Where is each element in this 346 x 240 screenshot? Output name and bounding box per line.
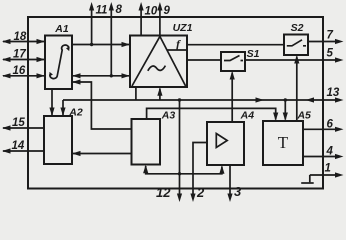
pin 7 wire from S2 bbox=[308, 39, 344, 44]
pin 8 wire bbox=[109, 2, 114, 76]
svg-text:9: 9 bbox=[164, 5, 171, 17]
pin 9 wire to UZ1 bbox=[157, 2, 162, 36]
svg-text:A3: A3 bbox=[161, 110, 176, 122]
svg-text:UZ1: UZ1 bbox=[173, 22, 193, 34]
IC outer border bbox=[28, 17, 323, 189]
UZ1 f-section divider bbox=[167, 49, 187, 51]
svg-text:14: 14 bbox=[12, 140, 25, 152]
wire junction down into A5 top bbox=[283, 100, 288, 121]
node pin12 upper junction bbox=[178, 98, 181, 101]
wire pin8 net to A1 and UZ1 lower input bbox=[72, 73, 130, 78]
wire A3 output to A2 input bbox=[72, 151, 132, 156]
wire sync bus to A3 and A4 bottoms bbox=[143, 165, 224, 174]
pin 2 wire from A4 left bbox=[190, 143, 207, 203]
node A5 input junction bbox=[284, 98, 287, 101]
wire A1 output to UZ1 upper input bbox=[72, 42, 130, 47]
wire A5 top output to S2 bbox=[294, 55, 299, 121]
pin 13 inward direction arrow bbox=[306, 97, 315, 102]
svg-text:T: T bbox=[278, 133, 289, 152]
svg-text:A2: A2 bbox=[68, 107, 83, 119]
pin 12 wire bbox=[177, 100, 182, 202]
wire A1 output to A2 bbox=[49, 89, 54, 116]
svg-text:5: 5 bbox=[327, 48, 334, 60]
svg-text:A1: A1 bbox=[54, 23, 69, 35]
svg-text:16: 16 bbox=[13, 65, 26, 77]
pin 15 wire from A2 bbox=[2, 125, 44, 130]
UZ1 triangle symbol bbox=[132, 36, 186, 86]
block A3 bbox=[132, 119, 161, 165]
wire common bus (UZ1 out / pin 13 net) bbox=[63, 99, 337, 101]
svg-text:10: 10 bbox=[145, 6, 158, 18]
wire UZ1 bottom output to bus bbox=[135, 87, 137, 100]
S1 contact symbol bbox=[224, 56, 243, 61]
block A1 bbox=[45, 36, 72, 90]
A1 sweep-shaper symbol bbox=[49, 45, 69, 79]
pin 1 wire bbox=[310, 172, 344, 177]
bus direction arrow toward A5 node bbox=[256, 97, 265, 102]
pin 17 wire to A1 bbox=[2, 57, 45, 62]
pin 4 wire from A5 bbox=[303, 154, 344, 159]
svg-text:12: 12 bbox=[156, 185, 171, 200]
node pin12 lower junction bbox=[178, 172, 181, 175]
wire UZ1 f output to S2 bbox=[187, 44, 284, 46]
wire bus branch to A2 bbox=[60, 100, 65, 116]
node pin11 junction bbox=[90, 43, 93, 46]
pin 6 wire from A5 bbox=[303, 127, 344, 132]
switch S2 bbox=[284, 35, 308, 56]
pin 3 wire from A4 bottom bbox=[227, 165, 232, 202]
wire A3 feedback to A1 bbox=[72, 79, 132, 129]
pin 14 wire from A2 bbox=[2, 148, 44, 153]
A4 amplifier triangle symbol bbox=[216, 134, 227, 148]
pin 5 wire from S1 bbox=[245, 57, 344, 62]
svg-text:8: 8 bbox=[116, 4, 123, 16]
pin 13 outward arrow bbox=[335, 97, 344, 102]
wire UZ1 output to S1 bbox=[187, 59, 221, 61]
svg-text:1: 1 bbox=[325, 163, 331, 175]
svg-text:2: 2 bbox=[196, 185, 205, 200]
pin 16 wire to A1 bbox=[2, 73, 45, 78]
wire A4 top output to S1 bbox=[230, 71, 235, 122]
svg-text:13: 13 bbox=[327, 87, 340, 99]
svg-text:11: 11 bbox=[96, 5, 108, 17]
block A4 comparator bbox=[207, 122, 244, 165]
svg-text:A4: A4 bbox=[240, 109, 255, 121]
svg-text:17: 17 bbox=[13, 49, 26, 61]
switch S1 bbox=[221, 52, 245, 71]
svg-text:7: 7 bbox=[327, 30, 334, 42]
ground bbox=[301, 175, 314, 183]
svg-text:4: 4 bbox=[326, 146, 334, 158]
pin 10 wire to UZ1 bbox=[139, 2, 144, 36]
pin 18 wire to A1 bbox=[2, 39, 45, 44]
svg-text:18: 18 bbox=[14, 31, 27, 43]
UZ1 AC tilde symbol bbox=[148, 66, 166, 71]
block UZ1 converter bbox=[130, 36, 187, 88]
pin 11 wire bbox=[89, 2, 94, 45]
block A2 bbox=[44, 116, 72, 164]
svg-text:S1: S1 bbox=[247, 48, 260, 60]
svg-text:A5: A5 bbox=[296, 109, 311, 121]
wire bus into UZ1 bottom input bbox=[157, 87, 162, 100]
svg-text:6: 6 bbox=[327, 119, 334, 131]
S2 contact symbol bbox=[287, 40, 306, 46]
svg-text:3: 3 bbox=[234, 184, 242, 199]
svg-text:15: 15 bbox=[12, 117, 25, 129]
node pin8 junction bbox=[110, 74, 113, 77]
svg-text:S2: S2 bbox=[291, 22, 304, 34]
block A5 trigger bbox=[263, 121, 303, 165]
wire A3 output to A5 top input bbox=[147, 108, 279, 121]
